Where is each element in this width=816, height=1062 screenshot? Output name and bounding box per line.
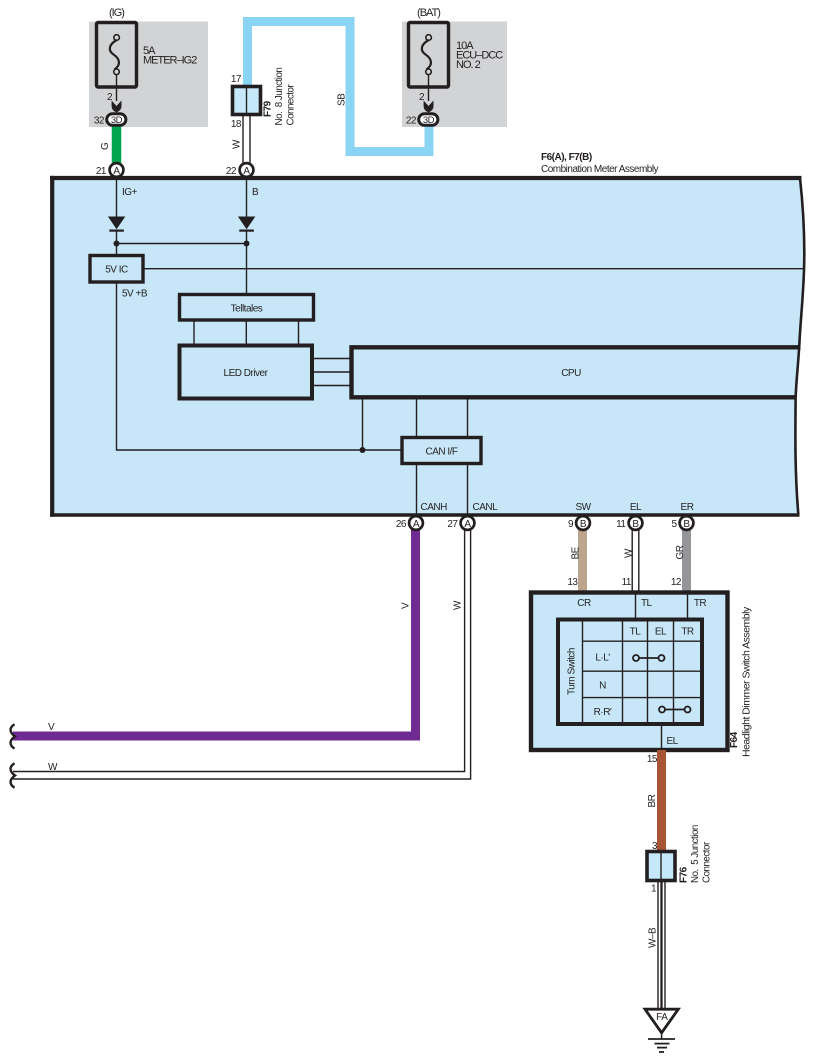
svg-text:FA: FA xyxy=(656,1012,668,1023)
svg-text:CAN I/F: CAN I/F xyxy=(425,447,457,458)
svg-text:18: 18 xyxy=(231,119,242,130)
diode D1 xyxy=(108,217,125,256)
svg-text:W: W xyxy=(453,600,464,610)
CAN I/F box xyxy=(402,438,481,464)
bus wires LED driver to CPU xyxy=(312,359,350,386)
wire G (green) xyxy=(112,124,122,172)
svg-text:3D: 3D xyxy=(423,115,435,126)
svg-text:Connector: Connector xyxy=(286,84,297,126)
combination meter assembly box xyxy=(50,152,804,517)
svg-text:BE: BE xyxy=(571,546,582,559)
svg-text:SB: SB xyxy=(337,93,348,106)
wire EL out of table xyxy=(662,724,679,750)
wire W (F79 to pin 22) xyxy=(232,114,251,166)
wires CPU to CAN I/F xyxy=(417,399,468,438)
svg-text:V: V xyxy=(48,722,55,733)
headlight dimmer switch assembly box xyxy=(531,593,753,758)
svg-text:32: 32 xyxy=(94,116,105,127)
svg-text:B: B xyxy=(252,187,259,198)
svg-text:11: 11 xyxy=(622,577,632,588)
svg-text:METER–IG2: METER–IG2 xyxy=(143,55,197,67)
svg-text:No. 5 Junction: No. 5 Junction xyxy=(690,825,701,883)
wire BR (brown) xyxy=(647,750,662,852)
brace continuation W xyxy=(11,763,15,787)
wire SB (sky blue) xyxy=(248,22,430,152)
svg-text:22: 22 xyxy=(226,166,237,177)
pin 21 circle A xyxy=(96,163,124,177)
wire 5V +B down and right to CAN I/F xyxy=(117,282,403,450)
wire V (purple) xyxy=(13,525,416,736)
svg-text:21: 21 xyxy=(96,166,107,177)
connector 3D (BAT side) xyxy=(406,114,438,127)
svg-text:BR: BR xyxy=(647,794,658,807)
wire 5V IC output right xyxy=(143,268,804,270)
contact L-L' xyxy=(633,655,665,661)
svg-text:SW: SW xyxy=(575,502,591,513)
svg-text:EL: EL xyxy=(655,627,667,638)
Telltales box xyxy=(180,295,314,321)
wire BE (beige) xyxy=(567,525,582,593)
node B wire xyxy=(247,178,260,218)
svg-text:B: B xyxy=(580,519,587,530)
arrow into 3D (BAT) xyxy=(424,101,434,113)
svg-text:TL: TL xyxy=(641,598,653,609)
svg-text:13: 13 xyxy=(567,577,578,588)
svg-text:CR: CR xyxy=(577,598,591,609)
svg-text:F79: F79 xyxy=(263,100,274,117)
node dot junction xyxy=(360,447,366,453)
gray background IG fuse xyxy=(89,22,208,128)
svg-text:11: 11 xyxy=(616,519,626,530)
svg-text:TR: TR xyxy=(694,598,707,609)
wire junction line xyxy=(114,241,250,247)
svg-text:17: 17 xyxy=(231,74,242,85)
junction connector F76 xyxy=(647,825,713,894)
wire CPU to dot xyxy=(362,399,364,450)
svg-text:L·L': L·L' xyxy=(595,653,610,664)
svg-text:GR: GR xyxy=(675,545,686,559)
node IG+ wire xyxy=(117,178,138,218)
svg-text:EL: EL xyxy=(667,736,679,747)
svg-text:26: 26 xyxy=(396,519,407,530)
svg-text:ER: ER xyxy=(681,502,694,513)
contact R-R' xyxy=(659,707,691,713)
svg-text:Turn Switch: Turn Switch xyxy=(567,648,578,695)
wire TR into table xyxy=(687,594,689,620)
svg-text:Headlight Dimmer Switch Assemb: Headlight Dimmer Switch Assembly xyxy=(741,606,753,757)
svg-text:G: G xyxy=(100,142,111,150)
svg-text:12: 12 xyxy=(671,577,682,588)
fuse F1 5A METER-IG2 xyxy=(97,7,198,103)
svg-text:CPU: CPU xyxy=(561,368,581,379)
pin 5 circle B xyxy=(671,516,693,530)
brace continuation V xyxy=(11,724,15,748)
svg-text:W: W xyxy=(232,139,243,149)
pin 9 circle B xyxy=(568,516,590,530)
svg-text:W: W xyxy=(48,762,58,773)
svg-text:IG+: IG+ xyxy=(122,187,138,198)
gray background BAT fuse xyxy=(402,22,507,128)
wire TL into table xyxy=(635,594,637,620)
5V IC box xyxy=(90,256,148,300)
svg-text:CANH: CANH xyxy=(421,502,448,513)
svg-text:F6(A), F7(B): F6(A), F7(B) xyxy=(541,152,592,163)
svg-text:5V IC: 5V IC xyxy=(105,265,128,276)
LED Driver box xyxy=(180,346,313,399)
svg-text:27: 27 xyxy=(447,519,458,530)
svg-text:15: 15 xyxy=(647,754,658,765)
svg-text:TR: TR xyxy=(681,627,694,638)
svg-text:Combination Meter Assembly: Combination Meter Assembly xyxy=(541,164,659,175)
pin 22 circle A xyxy=(226,163,254,177)
svg-text:22: 22 xyxy=(406,116,417,127)
svg-text:CANL: CANL xyxy=(473,502,499,513)
svg-text:Telltales: Telltales xyxy=(231,304,263,315)
svg-text:A: A xyxy=(464,519,471,530)
svg-text:No. 8 Junction: No. 8 Junction xyxy=(274,68,285,126)
pin 11 circle B xyxy=(616,516,642,530)
turn switch table xyxy=(558,620,702,725)
svg-text:N: N xyxy=(599,681,606,692)
wire W-B xyxy=(648,881,666,1010)
wire GR (gray) xyxy=(671,525,687,593)
ground FA xyxy=(645,1009,678,1052)
svg-text:(IG): (IG) xyxy=(109,7,124,19)
wire W (CANL white) xyxy=(13,525,471,779)
pin 26 circle A xyxy=(396,516,423,530)
svg-text:A: A xyxy=(113,166,120,177)
svg-text:NO. 2: NO. 2 xyxy=(456,59,481,71)
svg-text:TL: TL xyxy=(630,627,642,638)
svg-text:A: A xyxy=(243,166,250,177)
diode D2 xyxy=(238,217,255,295)
svg-text:R·R': R·R' xyxy=(594,707,612,718)
svg-text:(BAT): (BAT) xyxy=(417,7,440,19)
connector 3D (IG side) xyxy=(94,114,126,127)
svg-text:Connector: Connector xyxy=(702,841,713,883)
CPU box xyxy=(350,346,801,400)
wire W (EL white) xyxy=(622,525,639,593)
pin 27 circle A xyxy=(447,516,474,530)
wires CAN I/F to pins xyxy=(417,464,694,518)
svg-text:V: V xyxy=(401,602,412,609)
fuse F2 10A ECU-DCC NO.2 xyxy=(409,7,504,103)
svg-text:F64: F64 xyxy=(729,731,740,748)
svg-text:W: W xyxy=(624,548,635,558)
svg-text:5V +B: 5V +B xyxy=(122,289,148,300)
svg-text:3D: 3D xyxy=(111,115,123,126)
svg-text:B: B xyxy=(632,519,639,530)
arrow into 3D (IG) xyxy=(112,101,122,113)
svg-text:F76: F76 xyxy=(679,866,690,883)
wires Telltales to LED driver xyxy=(194,320,299,345)
svg-text:W–B: W–B xyxy=(648,927,659,948)
svg-text:LED Driver: LED Driver xyxy=(224,368,269,379)
svg-text:A: A xyxy=(413,519,420,530)
junction connector F79 xyxy=(231,68,297,130)
svg-text:B: B xyxy=(683,519,690,530)
svg-text:EL: EL xyxy=(630,502,642,513)
